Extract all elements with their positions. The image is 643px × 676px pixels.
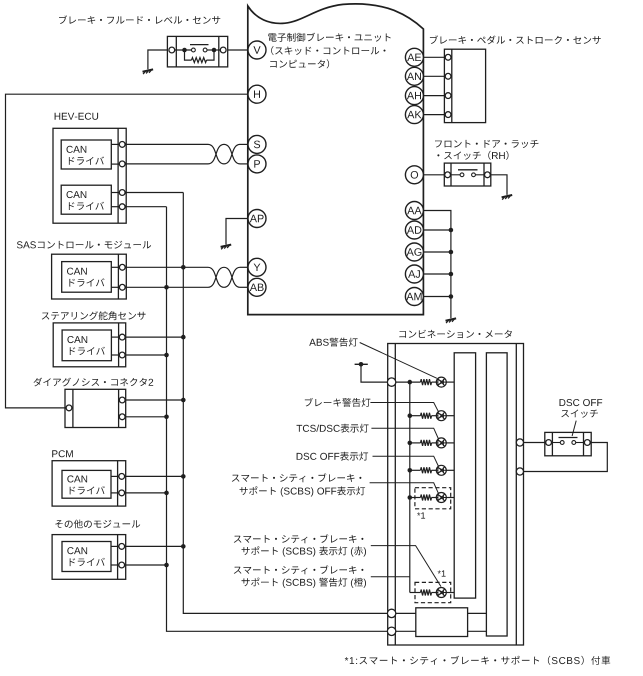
wire meter to DSC OFF switch [524,442,545,444]
pin S [248,135,266,153]
SCBS OFF indicator label line2 [240,486,366,496]
junction [449,294,454,299]
wire diag connector to bus B [125,416,167,418]
meter terminal DSC lower [516,468,523,475]
resistor R4 [421,467,432,473]
stroke sensor terminals [445,54,451,117]
steering sensor box [53,323,126,367]
lamp brake warning lamp [436,411,446,421]
wire AJ to ground bus [423,273,451,275]
brake pedal stroke sensor body [444,49,485,122]
junction bus A [181,398,186,403]
wire resistor to lamp [432,592,437,594]
wire lamp to block [446,415,454,417]
meter terminal bus A [387,609,395,617]
pin AK [405,106,423,124]
wire DSC OFF switch return [524,443,608,472]
junction lamp bus [408,495,413,500]
twisted pair to S/P [208,144,240,164]
wire AN to stroke sensor [423,75,445,77]
diag connector right terminals [119,397,125,420]
wire bus B into meter block [395,630,416,632]
junction lamp bus [408,468,413,473]
front door latch switch label line2 [437,151,508,160]
wire resistor to lamp [432,497,437,499]
wire lamp row SCBS OFF indicator lamp [410,497,421,499]
resistor R3 [421,440,432,446]
junction bus A [181,335,186,340]
pin AH [405,87,423,105]
wire AM to ground bus [423,296,451,298]
wire lamp row DSC OFF indicator lamp [410,469,421,471]
brake pedal stroke sensor label [430,35,601,44]
wire PCM CAN-L to bus B [124,492,167,494]
HEV-ECU box [53,128,126,223]
CAN driver 2 box [61,185,111,214]
other CAN stubs [111,546,119,565]
SCBS red indicator label line2 [242,546,367,556]
ABS warning lamp label [309,338,357,347]
steering CAN stubs [111,337,119,355]
other CAN terminals [119,544,125,568]
ECU name label コンピュータ） [270,59,329,68]
DSC OFF indicator label [297,452,369,461]
door switch contacts [451,173,484,177]
junction bus A [181,265,186,270]
wire steering CAN-L to bus B [125,354,167,356]
wire lamp row brake warning lamp [410,415,421,417]
sensor internal wiring [175,49,221,51]
steering CAN driver text [67,336,104,355]
pin AE [405,48,423,66]
pin P [248,155,266,173]
leader to SCBS lamp red [371,546,441,587]
PCM label [52,450,73,457]
steering angle sensor label [42,311,146,320]
wire lamp bus to SCBS lamp [410,592,421,594]
wire O pin to door switch [423,174,444,176]
wire H pin to diagnosis connector 2 [6,94,249,408]
wire lamp to block [446,592,454,594]
wire lamp to block [446,469,454,471]
pin AJ [405,265,423,283]
pin AN [405,67,423,85]
PCM CAN stubs [111,476,119,493]
ground [221,245,232,250]
junction bus B [164,415,169,420]
PCM CAN driver text [67,475,104,494]
leader to ABS lamp [360,343,437,379]
TCS/DSC indicator label [297,424,369,433]
sensor terminal pins [169,47,226,53]
wire interface to block2 upper [468,612,487,614]
wire CAN1-L to P pin [125,163,208,165]
wire bus A into meter block [395,612,416,614]
DSC switch bar [559,437,578,439]
wire steering CAN-H to bus A [125,336,183,338]
SAS module box [52,254,127,299]
wire PCM CAN-H to bus A [124,475,183,477]
resistor R1 [421,379,432,385]
wire AA to ground bus [423,211,451,319]
ECU name label 電子制御ブレーキ・ユニット [268,33,391,42]
CAN driver 2 terminals [119,190,125,210]
leader to SCBS lamp orange [371,576,410,578]
SCBS orange warning label line2 [242,578,367,588]
SAS CAN driver box [62,262,112,293]
wire lamp to block [446,442,454,444]
wire twisted pair into AB [240,286,248,288]
lamp feed bus wire [409,382,411,592]
front door latch switch body [444,163,491,186]
lamp DSC OFF indicator lamp [436,465,446,475]
PCM CAN terminals [119,474,125,496]
front door latch switch label line1 [435,140,538,148]
meter terminal DSC upper [516,439,523,446]
CAN bus B vertical wire [167,207,388,632]
wire AP to ground [226,219,248,245]
wire twisted pair into Y [240,266,248,268]
switch bar [190,44,209,46]
DSC switch contacts [552,441,584,445]
lamp ABS warning [436,377,446,387]
wire SAS CAN-L to AB pin [125,286,208,288]
pin Y [248,258,266,276]
wire resistor to lamp [432,442,437,444]
steering CAN terminals [119,334,125,358]
lamp TCS/DSC indicator lamp [436,438,446,448]
junction lamp bus [408,441,413,446]
PCM CAN driver box [62,470,111,498]
resistor R6 [421,590,432,596]
DSC OFF switch S2 body [545,432,591,455]
wire sensor to ground [148,50,168,69]
junction bus B [164,563,169,568]
wire AK to stroke sensor [423,114,445,116]
wire SAS CAN-H to Y pin [125,266,208,268]
CAN driver 1 box [61,140,111,169]
ECU name label （スキッド・コントロール・ [271,46,385,55]
footnote mark *1 [417,512,425,518]
SCBS red indicator label line1 [234,534,364,543]
lamp SCBS OFF indicator lamp [436,493,446,503]
leader to DSC OFF lamp [373,456,439,466]
meter CAN interface block [416,608,468,637]
combination meter label [399,330,512,338]
junction bus A [181,544,186,549]
steering CAN driver box [62,330,111,361]
wire AD to ground bus [423,229,451,231]
junction bus A [181,474,186,479]
ground [143,69,154,74]
junction lamp bus [408,380,413,385]
wire AE to stroke sensor [423,56,445,58]
door switch bar [458,169,478,171]
diagnosis connector 2 label [34,378,154,387]
pin V [248,41,266,59]
CAN driver 1 stubs [111,144,119,164]
wire CAN2-L to bus B [125,206,167,208]
wire resistor to lamp [432,381,437,383]
wire other CAN-H to bus A [124,545,183,547]
PCM box [52,461,126,506]
power feed bar [355,363,368,365]
lamp SCBS warning red/orange [436,588,446,598]
node power feed [359,362,364,367]
wire resistor to lamp [432,415,437,417]
brake fluid level sensor label [59,15,220,24]
brake fluid level sensor S1 body [167,36,227,67]
door switch terminals [445,172,491,178]
wire door switch to ground [491,175,507,195]
junction bus B [164,491,169,496]
pin AG [405,243,423,261]
optional equipment dashed box [415,488,451,509]
resistor R5 [421,495,432,501]
wire power feed to ABS lamp row [361,364,388,382]
DSC switch terminals [546,440,591,446]
SCBS orange warning label line1 [234,565,364,574]
junction [182,48,187,53]
junction [449,250,454,255]
meter internal block 2 [486,353,507,636]
wire lamp to block [446,497,454,499]
resistor branch of sensor [185,50,215,63]
other CAN driver text [67,547,104,566]
resistor R2 [421,413,432,419]
pin AM [405,288,423,306]
wire lamp to block [446,381,454,383]
junction [449,228,454,233]
wire ABS lamp row [395,381,420,383]
CAN bus A vertical wire [183,193,387,614]
other modules label [55,520,140,529]
wire AG to ground bus [423,251,451,253]
DSC OFF switch label [560,399,603,418]
wire CAN2-H to bus A [125,192,183,194]
SCBS OFF indicator label line1 [232,473,362,482]
CAN driver 1 terminals [119,142,125,167]
wire resistor to lamp [432,469,437,471]
leader to brake warning lamp [370,403,438,412]
ground [502,195,513,200]
other CAN driver box [62,542,111,572]
wire CAN1-H to S pin [125,143,208,145]
pin H [248,85,266,103]
diagnosis connector 2 box [65,389,126,427]
junction lamp bus [408,413,413,418]
meter internal block 1 [454,353,475,598]
wire other CAN-L to bus B [124,564,167,566]
leader to SCBS OFF lamp [370,483,439,494]
DSC OFF switch pointer [572,421,576,436]
wire twisted pair into P [240,163,248,165]
wire V pin to sensor [228,49,248,51]
junction bus B [164,353,169,358]
junction [212,48,217,53]
brake warning lamp label [305,398,371,407]
CAN driver 2 text [67,191,105,210]
SAS control module label [17,241,151,249]
wire AH to stroke sensor [423,95,445,97]
pin AP [248,210,266,228]
footnote [345,656,610,665]
pin AB [248,278,266,296]
junction [449,272,454,277]
pin O [405,166,423,184]
CAN driver 2 stubs [111,193,119,207]
skid control ECU U1 (electronic brake control unit) [248,4,424,315]
footnote mark *1 [438,570,446,576]
meter terminal row1 [387,378,395,386]
leader to TCS/DSC lamp [371,428,438,439]
meter terminal bus B [387,627,395,635]
ground [446,318,457,323]
wire twisted pair into S [240,143,248,145]
diag connector left terminal [66,405,72,411]
SAS CAN driver text [67,268,105,287]
SAS CAN stubs [111,267,119,287]
SAS CAN terminals [119,264,125,290]
twisted pair to Y/AB [208,267,240,287]
wire interface to block2 lower [468,630,487,632]
CAN driver 1 text [67,146,105,165]
combination meter box [388,344,524,646]
other modules box [52,535,126,580]
optional equipment dashed box [415,582,451,602]
wire diag connector to bus A [125,399,183,401]
pin AD [405,221,423,239]
junction bus B [164,285,169,290]
HEV-ECU label [55,113,99,120]
wire lamp row TCS/DSC indicator lamp [410,442,421,444]
pin AA [405,202,423,220]
switch contacts inside sensor [192,48,208,52]
